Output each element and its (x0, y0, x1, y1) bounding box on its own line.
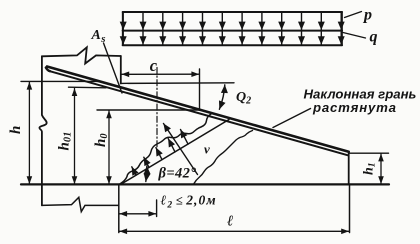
dimension c (122, 73, 199, 75)
h0 top extension line (97, 109, 201, 111)
svg-text:p: p (362, 7, 372, 24)
crack right wavy edge (194, 131, 253, 184)
svg-text:q: q (370, 29, 378, 46)
dimension h0 (108, 111, 110, 184)
dimension h (28, 82, 30, 184)
beam bottom edge (21, 183, 389, 185)
load block bottom line (123, 44, 342, 46)
inclined reinforcement As lower line (49, 71, 348, 155)
h top extension line (21, 80, 100, 82)
leader to p (345, 12, 362, 18)
dimension l2 (120, 213, 157, 215)
leader to q (343, 33, 366, 39)
right extension vertical for l dimension (349, 185, 351, 233)
dimension h1 (380, 154, 382, 184)
crack stress fan arrow 3 (156, 148, 162, 160)
load block right edge (341, 12, 343, 45)
h01 top extension line (69, 86, 107, 89)
crack stress fan arrow 1 (132, 167, 136, 175)
svg-text:h: h (8, 126, 24, 134)
Q2 horizontal reference line (121, 82, 234, 85)
dimension h01 (74, 88, 76, 183)
beta angle arrow (146, 166, 147, 182)
load block middle line (123, 30, 342, 32)
bottom broken extension line with zigzag (42, 197, 119, 211)
svg-text:растянута: растянута (312, 100, 397, 115)
As leader line (104, 43, 123, 93)
beam top edge with break zigzag (42, 47, 121, 63)
beam right end edge (348, 152, 350, 185)
beam step vertical (120, 56, 122, 84)
svg-text:c: c (150, 56, 158, 75)
load block top line (123, 11, 342, 13)
crack stress baseline (121, 120, 230, 185)
dimension l (120, 230, 349, 232)
svg-text:β=42°: β=42° (158, 166, 197, 182)
nu resultant arrow (164, 124, 198, 175)
section vertical line at crack top (199, 69, 201, 110)
leader to incline note (273, 109, 311, 128)
load arrows row q (123, 31, 341, 45)
svg-text:ℓ: ℓ (227, 214, 233, 230)
left extension vertical for l dimensions (118, 185, 120, 233)
crack stress fan arrow 2 (144, 157, 149, 167)
load arrows row p (123, 12, 341, 30)
beam left edge with S-break (39, 56, 46, 205)
Q2 double arrow (219, 85, 224, 110)
crack stress fan arrow 4 (168, 139, 175, 152)
h1 top extension line (350, 152, 389, 154)
svg-text:Наклонная грань: Наклонная грань (304, 86, 417, 101)
l2 right tick (156, 200, 158, 217)
svg-text:ν: ν (204, 142, 210, 157)
crack stress fan arrow 5 (181, 130, 189, 145)
incline start ink blob (46, 68, 50, 72)
dash-dot axis line (156, 68, 158, 149)
load block left edge (122, 12, 124, 45)
crack left wavy edge (120, 114, 211, 184)
inclined top face upper line (47, 67, 349, 152)
